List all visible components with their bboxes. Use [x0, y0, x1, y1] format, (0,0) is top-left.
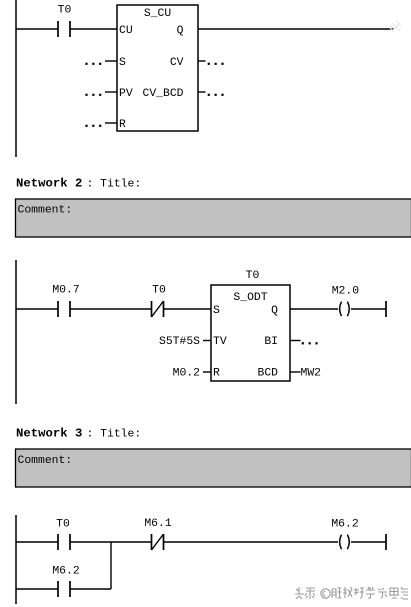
- left power rail (network 3): [15, 515, 17, 604]
- svg-text:CU: CU: [119, 25, 133, 37]
- svg-text:M6.2: M6.2: [52, 566, 80, 578]
- svg-text:S: S: [119, 57, 126, 69]
- branch wire rail to contact M6.2: [16, 588, 58, 590]
- svg-text:R: R: [119, 119, 126, 131]
- svg-text:Q: Q: [177, 25, 184, 37]
- wire rail to contact M0.7: [16, 308, 58, 310]
- pin BCD: [257, 368, 321, 380]
- svg-text:BI: BI: [264, 336, 278, 348]
- right power rail tick (network 2): [385, 301, 387, 317]
- contact T0 (NO): [56, 519, 70, 551]
- svg-text:M6.2: M6.2: [331, 519, 359, 531]
- svg-text:Network 2: Network 2: [16, 177, 82, 191]
- counter block S_CU: [117, 5, 198, 131]
- timer block S_ODT: [211, 285, 290, 381]
- watermark 头条@跟我动手学电气 (drawn shapes, gray emboss): [295, 587, 409, 600]
- svg-text:T0: T0: [246, 270, 260, 282]
- pin PV: [85, 88, 132, 100]
- svg-text:Network 3: Network 3: [16, 427, 82, 441]
- svg-text:MW2: MW2: [301, 368, 322, 380]
- branch wire contact to junction: [70, 588, 111, 590]
- pin R: [85, 119, 126, 131]
- svg-text:R: R: [213, 368, 220, 380]
- wire rail to contact T0: [16, 28, 58, 30]
- svg-text:M2.0: M2.0: [332, 286, 360, 298]
- branch junction vertical wire: [110, 542, 112, 589]
- svg-text:: Title:: : Title:: [87, 429, 142, 441]
- faint watermark ghost artifact: [390, 21, 401, 32]
- wire Q output: [198, 28, 394, 30]
- left power rail (network 1): [15, 0, 17, 157]
- pin CV: [170, 57, 224, 69]
- pin TV: [159, 336, 227, 348]
- pin BI: [264, 336, 317, 348]
- svg-text:BCD: BCD: [257, 368, 278, 380]
- wire contact T0 to block CU pin: [70, 28, 117, 30]
- contact T0 (NO): [58, 5, 72, 38]
- contact T0 (NC): [152, 285, 166, 318]
- svg-text:M0.7: M0.7: [52, 285, 79, 297]
- svg-text:CV_BCD: CV_BCD: [142, 88, 183, 100]
- wire T0 to block S pin: [164, 308, 212, 310]
- contact M6.1 (NC): [144, 518, 172, 550]
- svg-text:M0.2: M0.2: [173, 368, 201, 380]
- svg-text:: Title:: : Title:: [87, 179, 142, 191]
- wire rail to contact T0: [16, 541, 58, 543]
- pin R: [173, 368, 220, 380]
- svg-text:S_ODT: S_ODT: [233, 292, 267, 304]
- contact M0.7 (NO): [52, 285, 79, 318]
- wire M0.7 to T0: [70, 308, 152, 310]
- svg-text:T0: T0: [56, 519, 70, 531]
- contact M6.2 (NO, parallel branch): [52, 566, 80, 598]
- svg-text:TV: TV: [213, 336, 227, 348]
- wire Q to coil M2.0: [290, 308, 338, 310]
- svg-text:S_CU: S_CU: [144, 8, 172, 20]
- svg-text:M6.1: M6.1: [144, 518, 172, 530]
- svg-text:S5T#5S: S5T#5S: [159, 336, 200, 348]
- comment bar (network 2): [16, 199, 411, 237]
- coil M2.0: [332, 286, 360, 317]
- svg-text:PV: PV: [119, 88, 133, 100]
- pin S: [85, 57, 126, 69]
- svg-text:CV: CV: [170, 57, 184, 69]
- wire T0 to contact M6.1: [70, 541, 152, 543]
- svg-text:Comment:: Comment:: [18, 455, 73, 467]
- right power rail tick (network 3): [385, 534, 387, 550]
- coil M6.2: [331, 519, 359, 550]
- svg-text:Q: Q: [271, 305, 278, 317]
- svg-text:Comment:: Comment:: [18, 205, 73, 217]
- svg-text:S: S: [213, 305, 220, 317]
- wire M6.1 to coil M6.2: [164, 541, 339, 543]
- comment bar (network 3): [16, 449, 411, 487]
- left power rail (network 2): [15, 260, 17, 404]
- pin CV_BCD: [142, 88, 223, 100]
- wire coil to right rail: [351, 308, 386, 310]
- svg-text:T0: T0: [58, 5, 72, 17]
- svg-text:T0: T0: [152, 285, 166, 297]
- wire coil to right rail: [351, 541, 386, 543]
